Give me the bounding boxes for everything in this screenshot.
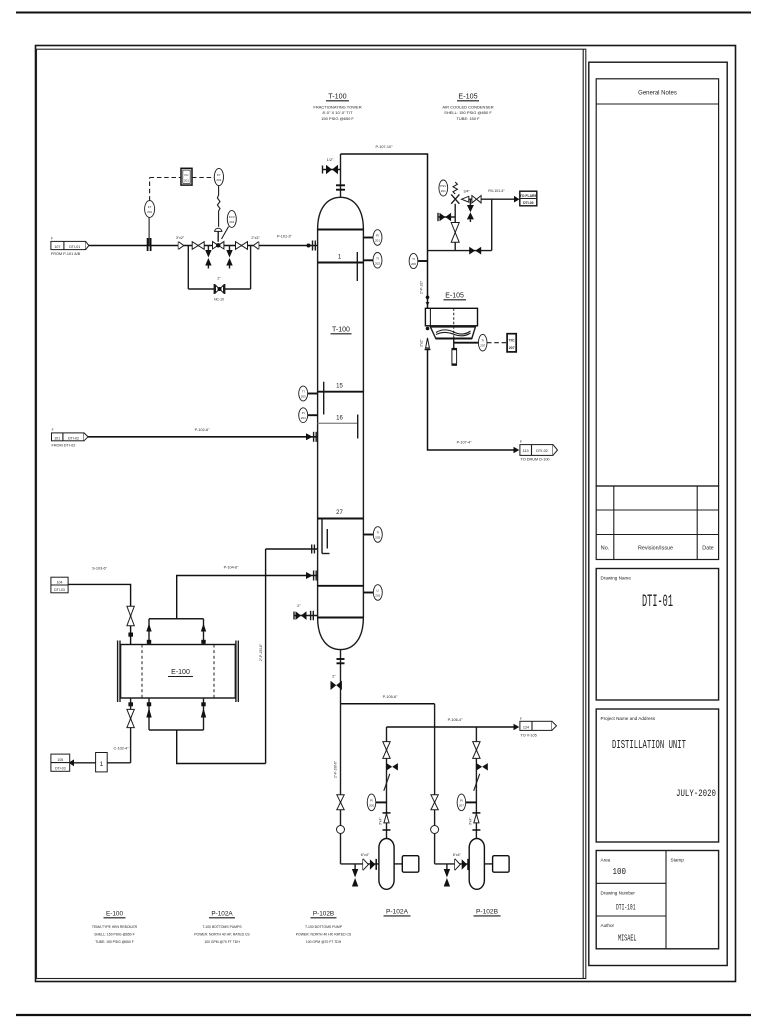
svg-text:SHELL: 150 PSIG @650 F: SHELL: 150 PSIG @650 F [94, 933, 134, 937]
pipe suction drop A [333, 704, 340, 864]
svg-text:PI: PI [370, 798, 373, 802]
gate valve discharge A [383, 742, 390, 759]
svg-text:DISTILLATION UNIT: DISTILLATION UNIT [612, 739, 686, 752]
pipe flare line [469, 189, 515, 199]
project name box [596, 709, 718, 842]
drain valve left [205, 246, 211, 269]
equipment note P-102A [194, 911, 250, 945]
svg-text:16: 16 [336, 415, 343, 421]
svg-text:P-102A: P-102A [386, 909, 409, 916]
svg-text:Stamp: Stamp [671, 858, 685, 863]
steam trap 1 [74, 753, 107, 772]
gate valve suction B [431, 795, 439, 834]
equipment header T-100 [313, 92, 361, 121]
signal FIC to FY [192, 177, 214, 179]
controller FIC-201 [181, 168, 192, 185]
svg-text:MISAEL: MISAEL [618, 934, 637, 944]
svg-text:DTI-101: DTI-101 [616, 903, 636, 913]
equipment header E-105 [442, 92, 493, 121]
instrument PI tower top [363, 230, 382, 246]
svg-text:S-103-6": S-103-6" [92, 567, 108, 571]
fan motor E-105 [452, 339, 458, 366]
svg-text:201: 201 [375, 239, 380, 243]
svg-text:P-102B: P-102B [313, 911, 334, 918]
pipe bypass [188, 246, 250, 290]
svg-text:6"x4": 6"x4" [453, 853, 462, 857]
svg-text:T-100: T-100 [332, 327, 350, 334]
capped stub valve left of PSV [438, 213, 455, 222]
svg-text:1/2": 1/2" [327, 158, 334, 162]
flange and reducer discharge B [469, 813, 481, 830]
svg-text:P-102B: P-102B [476, 909, 499, 916]
tower bottom line [318, 585, 364, 587]
svg-text:Author: Author [601, 923, 615, 928]
reboiler E-100 shell [118, 641, 239, 703]
svg-text:P-107-10": P-107-10" [376, 145, 394, 149]
pipe pump suction header P-105-6" [341, 695, 435, 704]
svg-text:DTI-03: DTI-03 [54, 588, 65, 592]
bottom rule line [16, 1014, 751, 1016]
svg-text:113: 113 [523, 449, 529, 453]
title block frame [589, 62, 727, 965]
svg-text:FY: FY [217, 173, 221, 177]
instrument tag FCV-201 [222, 211, 237, 239]
svg-text:PI: PI [460, 798, 463, 802]
tray 16 [318, 415, 358, 439]
vent valve 1/2" tower top [323, 158, 341, 174]
globe valve stub below flare line [467, 199, 474, 222]
svg-text:2"-P-103-6": 2"-P-103-6" [259, 643, 263, 661]
drain valve right [226, 246, 232, 269]
svg-text:DTI-02: DTI-02 [536, 449, 548, 453]
svg-text:204: 204 [301, 416, 306, 420]
svg-text:2"x3": 2"x3" [251, 236, 260, 240]
svg-text:DTI-02: DTI-02 [68, 437, 79, 441]
equipment note E-100 [92, 911, 138, 945]
svg-text:JULY-2020: JULY-2020 [676, 789, 716, 800]
check valve discharge A [384, 774, 390, 791]
svg-text:Date: Date [702, 546, 713, 552]
pipe reboiler liquid feed [177, 730, 266, 764]
pipe E-105 outlet to drum [428, 349, 515, 450]
svg-text:TI: TI [376, 531, 379, 535]
gate valve flare line [472, 196, 481, 203]
svg-text:101: 101 [54, 437, 60, 441]
control valve FCV-201 [213, 228, 224, 249]
svg-text:203: 203 [301, 395, 306, 399]
instrument LI tower bottom right [363, 585, 382, 601]
instrument TI tower top [363, 252, 382, 268]
off-page connector 105 condensate [51, 754, 74, 771]
revision/issue table [596, 486, 718, 560]
condenser E-105 body [425, 308, 477, 346]
svg-text:150 PSIG @650 F: 150 PSIG @650 F [321, 116, 354, 121]
gate valve PSV inlet [451, 223, 459, 243]
drain valve suction B [444, 864, 450, 887]
svg-text:27: 27 [336, 510, 343, 516]
gate valve discharge B [473, 742, 480, 759]
tray 1 [318, 252, 364, 281]
drawing area inner border [37, 49, 586, 978]
top rule line [16, 12, 751, 14]
instrument PI pump B [457, 794, 476, 811]
svg-text:RV-101-4": RV-101-4" [488, 189, 505, 193]
pipe discharge riser A [386, 727, 388, 839]
svg-text:DTI-03: DTI-03 [55, 766, 66, 770]
orifice plate FE-201 [148, 218, 151, 252]
svg-text:FRACTIONATING TOWER: FRACTIONATING TOWER [313, 105, 361, 110]
tray 27 [318, 510, 364, 554]
valve 2" tower bottoms [331, 666, 342, 704]
nozzle tower top [336, 154, 345, 197]
svg-text:PSV: PSV [440, 184, 446, 188]
nozzles E-100 top vapor [146, 619, 206, 645]
svg-text:TO V-105: TO V-105 [521, 734, 537, 738]
svg-text:206: 206 [411, 262, 416, 266]
svg-text:P-105-6": P-105-6" [383, 695, 399, 699]
svg-text:T-100 BOTTOMS PUMPS: T-100 BOTTOMS PUMPS [202, 925, 242, 929]
off-page connector 104 steam [51, 577, 68, 593]
svg-text:C-102-4": C-102-4" [113, 747, 129, 751]
svg-text:3"x2": 3"x2" [176, 236, 185, 240]
svg-text:E-105: E-105 [445, 293, 464, 300]
svg-text:F: F [52, 428, 54, 432]
drain valve suction A [352, 864, 358, 887]
svg-text:E-105: E-105 [458, 92, 477, 101]
svg-text:15: 15 [336, 384, 343, 390]
instrument TI tray15 left [299, 386, 318, 401]
reducer 6"x4" suction A [361, 853, 376, 870]
svg-text:SHELL: 150 PSIG @650 F: SHELL: 150 PSIG @650 F [444, 110, 492, 115]
svg-text:PI: PI [302, 411, 305, 415]
equipment note P-102B [296, 911, 352, 945]
svg-text:TO DRUM D-100: TO DRUM D-100 [521, 458, 550, 462]
svg-text:8'-0" X 10'-0" T/T: 8'-0" X 10'-0" T/T [322, 110, 353, 115]
valve 2" tower bottom sump [294, 604, 318, 620]
gate valve condensate [127, 698, 134, 763]
svg-text:100: 100 [613, 867, 627, 877]
signal FY to valve actuator [217, 186, 220, 227]
pipe discharge header P-106-4" [387, 718, 515, 727]
svg-text:Drawing Number: Drawing Number [601, 891, 636, 896]
svg-text:TUBE: 150 PSIG @650 F: TUBE: 150 PSIG @650 F [95, 940, 134, 944]
svg-text:AIR COOLED CONDENSER: AIR COOLED CONDENSER [442, 105, 493, 110]
svg-text:3"x2": 3"x2" [420, 339, 424, 347]
svg-text:107: 107 [54, 245, 60, 249]
reducer 6"x4" suction B [453, 853, 468, 870]
svg-text:202: 202 [375, 261, 380, 265]
check valve discharge B [474, 774, 480, 791]
svg-text:No.: No. [601, 546, 609, 552]
instrument TI overhead [409, 253, 427, 268]
title info block [596, 851, 718, 949]
svg-text:DTI-03: DTI-03 [523, 201, 533, 205]
svg-text:DTI-01: DTI-01 [642, 592, 673, 612]
globe valve discharge A [387, 763, 398, 770]
svg-text:F: F [520, 717, 522, 721]
pipe suction A to pump [341, 863, 379, 865]
svg-text:TI: TI [302, 390, 305, 394]
pump label P-102B [474, 909, 501, 916]
svg-text:F: F [520, 440, 522, 444]
svg-text:TUBE: 150 F: TUBE: 150 F [456, 116, 480, 121]
svg-text:Drawing Name: Drawing Name [601, 576, 632, 581]
svg-text:FT: FT [148, 205, 152, 209]
general notes box [596, 79, 718, 486]
signal TI to TIC display [487, 342, 507, 344]
svg-text:205: 205 [375, 536, 380, 540]
svg-text:FROM P-101 A/B: FROM P-101 A/B [51, 252, 81, 256]
globe valve bypass to flare [469, 247, 481, 255]
svg-text:201: 201 [441, 189, 446, 193]
gate valve block left [192, 242, 204, 250]
pipe reflux feed line [89, 245, 318, 247]
pump label P-102A [384, 909, 411, 916]
svg-text:1: 1 [100, 761, 104, 768]
svg-text:104: 104 [57, 580, 63, 584]
reducer 2"x3" [251, 236, 260, 250]
flange tower bottom outlet [337, 650, 345, 666]
pipe steam supply [68, 567, 131, 645]
flange reflux nozzle [307, 241, 316, 251]
svg-text:TEMA TYPE HEN REBOILER: TEMA TYPE HEN REBOILER [92, 925, 138, 929]
svg-text:6"x4": 6"x4" [361, 853, 370, 857]
flange E-105 inlet [420, 281, 430, 306]
pipe bottoms draw-off to reboiler [259, 545, 318, 764]
pump P-102B body [469, 839, 484, 890]
svg-text:207: 207 [459, 803, 464, 807]
svg-text:100 GPM @70 FT TDH: 100 GPM @70 FT TDH [306, 940, 342, 944]
svg-text:POWER: NORTH 40 HP, RATED CS: POWER: NORTH 40 HP, RATED CS [194, 933, 250, 937]
globe valve bypass NC [214, 277, 225, 302]
svg-text:E-100: E-100 [106, 911, 123, 918]
svg-text:206: 206 [369, 803, 374, 807]
instrument TI E-105 [454, 334, 487, 351]
svg-text:P-104-6": P-104-6" [224, 566, 240, 570]
svg-text:P-106-4": P-106-4" [448, 718, 464, 722]
svg-text:Revision/Issue: Revision/Issue [638, 546, 673, 552]
instrument PI tray16 left [299, 408, 318, 423]
svg-text:201: 201 [216, 178, 221, 182]
svg-text:LI: LI [377, 589, 380, 593]
svg-text:201: 201 [375, 594, 380, 598]
svg-text:E-100: E-100 [171, 669, 190, 676]
svg-text:TI: TI [481, 339, 484, 343]
svg-text:3"x4": 3"x4" [379, 818, 383, 825]
svg-text:General Notes: General Notes [638, 91, 677, 97]
svg-text:201: 201 [229, 220, 234, 224]
pipe main feed line [88, 428, 318, 437]
pump P-102A body [379, 839, 394, 890]
reducer 3"x2" [176, 236, 185, 250]
svg-text:POWER: NORTH 40 HP, RATED CS: POWER: NORTH 40 HP, RATED CS [296, 933, 352, 937]
tower bottom tangent [318, 617, 364, 619]
pipe condensate outlet C-102-4" [107, 747, 130, 763]
svg-text:F: F [51, 237, 53, 241]
svg-text:T-100 BOTTOMS PUMP: T-100 BOTTOMS PUMP [305, 925, 343, 929]
gate valve steam [127, 606, 134, 636]
motor P-102A [394, 856, 419, 873]
instrument FT-201 [145, 201, 155, 218]
instrument FY-201 [214, 168, 223, 185]
svg-text:TI: TI [412, 257, 415, 261]
svg-text:2"-P-106-6": 2"-P-106-6" [333, 760, 337, 778]
expander E-105 outlet [420, 327, 431, 350]
svg-text:124: 124 [523, 726, 529, 730]
off-page connector 113 to drum [514, 440, 558, 462]
svg-text:TIC: TIC [509, 339, 515, 343]
tower label T-100 [331, 327, 352, 334]
off-page connector 124 bottoms product [514, 717, 557, 738]
svg-text:P-101-3": P-101-3" [277, 235, 293, 239]
flange feed nozzle [306, 432, 316, 442]
tower T-100 shell [318, 197, 364, 649]
svg-text:201: 201 [184, 179, 189, 183]
signal FT to FIC [150, 178, 181, 201]
drawing name box [596, 569, 718, 701]
pipe reboiler vapor return P-104-6" [177, 566, 318, 619]
svg-text:105: 105 [57, 758, 63, 762]
svg-text:FCV: FCV [229, 215, 235, 219]
pipe discharge riser B [475, 727, 477, 839]
instrument PI pump A [367, 794, 386, 811]
svg-text:FROM DTI-02: FROM DTI-02 [52, 444, 76, 448]
off-page connector to flare [514, 191, 537, 206]
svg-text:P-102A: P-102A [211, 911, 233, 918]
tray 15 [318, 382, 364, 415]
drawing area double edge line [582, 49, 584, 978]
svg-text:P-107-4": P-107-4" [457, 441, 473, 445]
svg-text:207: 207 [509, 346, 515, 350]
instrument tag PSV-201 [439, 180, 471, 196]
off-page connector 107 from P-101 A/B [51, 237, 89, 257]
nozzles E-100 bottom liquid [146, 698, 206, 730]
svg-text:P-102-6": P-102-6" [195, 428, 211, 432]
svg-text:201: 201 [147, 210, 152, 214]
svg-text:TO FLARE: TO FLARE [520, 194, 538, 198]
svg-text:Project Name and Address: Project Name and Address [601, 716, 656, 721]
pipe suction drop B [434, 704, 436, 864]
pipe PSV bypass header [428, 199, 492, 250]
shared display TIC-207 [507, 334, 516, 352]
instrument TI tower bottom right [363, 527, 382, 543]
pipe overhead vapor line [341, 145, 428, 308]
pipe suction B to pump [435, 863, 470, 865]
svg-text:3/4": 3/4" [464, 190, 471, 194]
gate valve block right [236, 242, 248, 250]
svg-text:TI: TI [376, 256, 379, 260]
condenser E-105 label [444, 293, 467, 300]
svg-text:100 GPM @70 FT TDH: 100 GPM @70 FT TDH [204, 940, 240, 944]
svg-text:207: 207 [480, 344, 485, 348]
svg-text:DTI-01: DTI-01 [69, 245, 80, 249]
off-page connector 101 feed [52, 428, 89, 448]
svg-text:NC-10: NC-10 [214, 298, 224, 302]
svg-text:3"x4": 3"x4" [469, 818, 473, 825]
svg-text:Area: Area [601, 858, 611, 863]
motor P-102B [484, 856, 509, 873]
flange and reducer discharge A [379, 813, 391, 830]
svg-text:2"-P-107: 2"-P-107 [420, 281, 424, 294]
globe valve discharge B [476, 763, 487, 770]
pipe PSV inlet riser [454, 204, 456, 251]
flange vapor return nozzle [306, 571, 316, 581]
svg-text:T-100: T-100 [328, 92, 346, 101]
gate valve suction A [337, 795, 345, 834]
relief valve PSV-201 [451, 182, 469, 204]
svg-text:PI: PI [376, 234, 379, 238]
